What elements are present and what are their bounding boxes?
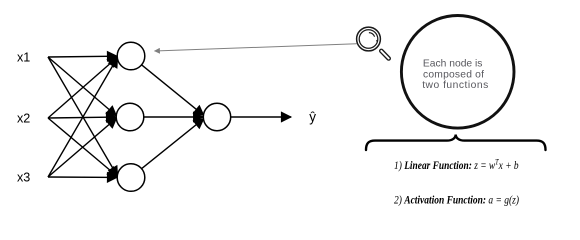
hidden node H1 [117, 42, 145, 70]
edge x2 to hidden node H2 [48, 116, 116, 119]
output arrow to y-hat [231, 116, 291, 118]
hidden node H2 [116, 103, 144, 131]
edge x2 to hidden node H3 [48, 118, 118, 177]
horizontal curly brace [366, 135, 546, 151]
edge x2 to hidden node H1 [48, 57, 118, 118]
formula 1: linear function [394, 157, 519, 172]
svg-text:Each node is: Each node is [423, 59, 483, 70]
edge x1 to hidden node H1 [48, 55, 117, 58]
svg-text:x3: x3 [17, 171, 30, 185]
magnifier outer ring [357, 27, 381, 51]
edge hidden node H2 to output node [144, 116, 203, 118]
edge x3 to hidden node H3 [48, 176, 117, 178]
big callout circle [401, 16, 514, 129]
svg-text:2) Activation Function: a = g(: 2) Activation Function: a = g(z) [394, 193, 519, 206]
edge x1 to hidden node H2 [48, 57, 117, 116]
hidden node H3 [117, 164, 145, 192]
magnifier handle [381, 51, 388, 59]
edge x3 to hidden node H1 [48, 57, 118, 177]
svg-text:ŷ: ŷ [309, 110, 316, 125]
svg-text:x2: x2 [17, 112, 30, 126]
magnifier highlight arc [369, 33, 375, 37]
output node [203, 103, 230, 130]
edge x1 to hidden node H3 [48, 57, 118, 176]
magnifier inner ring [359, 30, 378, 49]
formula 2: activation function [394, 193, 519, 206]
magnifier icon [357, 27, 389, 58]
svg-text:1) Linear Function: z = wTx +: 1) Linear Function: z = wTx + b [394, 157, 519, 172]
svg-text:two functions: two functions [422, 80, 489, 91]
callout arrow from magnifier to hidden node H1 [155, 44, 357, 51]
callout circle text [422, 59, 489, 92]
magnifier highlight dot [376, 40, 378, 43]
svg-text:composed of: composed of [423, 69, 484, 80]
edge hidden node H3 to output node [142, 119, 204, 169]
svg-text:x1: x1 [17, 51, 30, 65]
edge hidden node H1 to output node [142, 65, 204, 116]
edge x3 to hidden node H2 [48, 118, 117, 177]
